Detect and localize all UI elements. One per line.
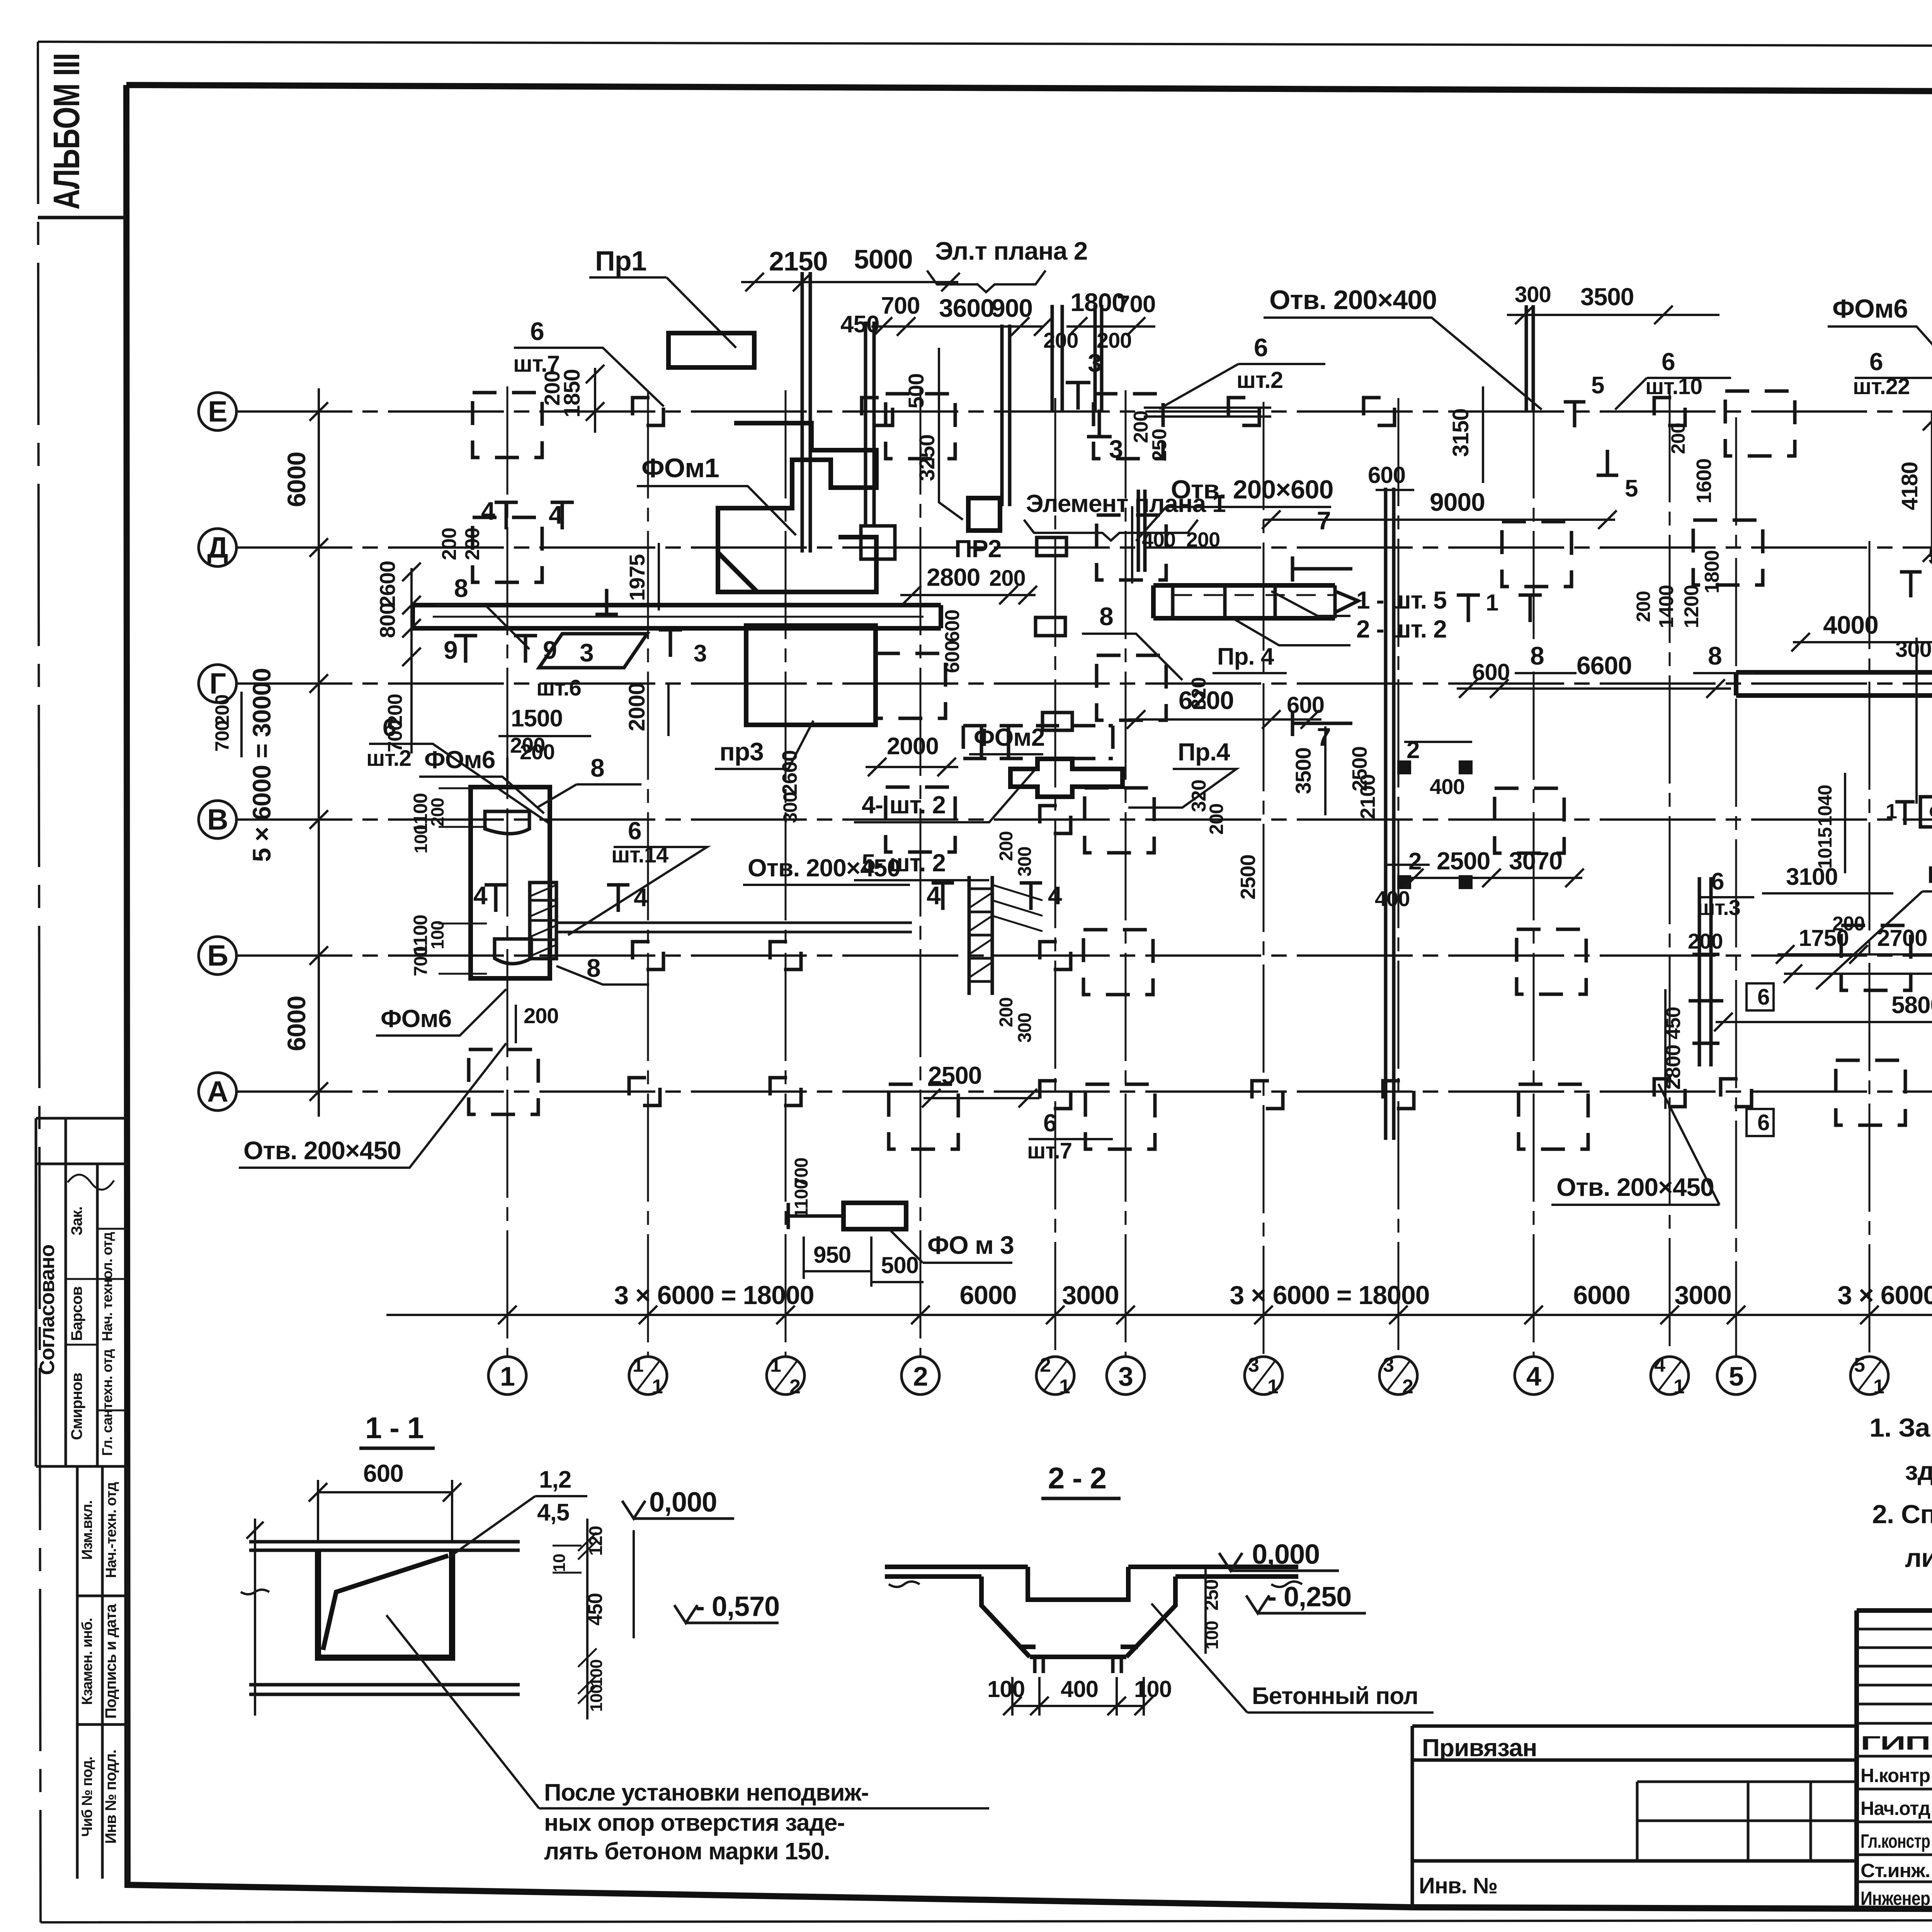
- svg-text:Зак.: Зак.: [68, 1207, 85, 1235]
- svg-text:1040: 1040: [1814, 785, 1836, 826]
- svg-text:лять бетоном марки 150.: лять бетоном марки 150.: [544, 1838, 830, 1865]
- svg-text:Нач. технол. отд: Нач. технол. отд: [99, 1232, 115, 1341]
- svg-text:ФОм6: ФОм6: [424, 746, 495, 774]
- svg-text:200: 200: [461, 528, 484, 560]
- svg-text:листе КЖС - 15: листе КЖС - 15: [1905, 1543, 1932, 1573]
- svg-text:6000: 6000: [959, 1281, 1016, 1310]
- svg-text:Гл.констр: Гл.констр: [1861, 1830, 1930, 1852]
- 1975 vertical dim: [658, 543, 660, 611]
- footing square (4841,2828): [1836, 1060, 1905, 1125]
- svg-text:400: 400: [1142, 528, 1175, 551]
- svg-text:4: 4: [927, 881, 941, 910]
- svg-text:Барсов: Барсов: [68, 1286, 85, 1341]
- long channel bar left (Д-Г): [413, 605, 941, 628]
- svg-text:Бетонный пол: Бетонный пол: [1252, 1683, 1418, 1709]
- svg-text:6: 6: [1711, 868, 1724, 895]
- svg-text:1: 1: [633, 1354, 643, 1376]
- svg-text:3: 3: [694, 640, 706, 667]
- svg-text:3500: 3500: [1291, 748, 1315, 794]
- footing bracket (3280,2833): [1252, 1081, 1283, 1109]
- svg-text:А: А: [207, 1075, 228, 1108]
- footing bracket (3619,2833): [1383, 1081, 1414, 1109]
- footing square (2382,1103): [886, 394, 955, 459]
- svg-text:Изм.вкл.: Изм.вкл.: [79, 1500, 95, 1560]
- svg-text:8: 8: [454, 574, 468, 602]
- svg-text:Нач.отд: Нач.отд: [1861, 1798, 1930, 1819]
- footing bracket (3569,1065): [1364, 398, 1395, 425]
- svg-text:В: В: [207, 803, 228, 836]
- column line 4/1: [1669, 394, 1671, 1355]
- svg-text:8: 8: [590, 753, 604, 782]
- axis line Д: [236, 546, 1932, 549]
- svg-text:1: 1: [1873, 1376, 1884, 1398]
- footing square (4855,2479): [1841, 925, 1911, 990]
- svg-text:1800: 1800: [1701, 550, 1723, 594]
- svg-text:200: 200: [427, 798, 447, 827]
- svg-text:3600: 3600: [939, 294, 994, 322]
- column line 2/1: [1054, 398, 1056, 1355]
- svg-text:400: 400: [1430, 774, 1464, 799]
- svg-text:600: 600: [1368, 462, 1405, 488]
- svg-text:здания станции.: здания станции.: [1905, 1456, 1932, 1486]
- svg-text:1015: 1015: [1814, 827, 1836, 869]
- footing square (2357,1775): [876, 653, 946, 718]
- svg-text:300: 300: [779, 792, 801, 823]
- svg-text:320: 320: [1188, 677, 1210, 710]
- footing bracket (4321,2828): [1654, 1079, 1685, 1107]
- footing bracket (2731,2833): [1040, 1081, 1071, 1109]
- svg-text:200: 200: [1667, 423, 1689, 454]
- svg-text:ФОм4: ФОм4: [1929, 799, 1932, 825]
- footing square (2897,2123): [1085, 788, 1154, 853]
- svg-text:2: 2: [789, 1376, 800, 1398]
- svg-text:5: 5: [1625, 475, 1638, 502]
- vertical dim 1850: [594, 368, 596, 433]
- svg-text:7: 7: [1317, 723, 1331, 751]
- footing square (2928,1417): [1097, 515, 1166, 580]
- footing square (2899,2890): [1085, 1084, 1155, 1149]
- svg-text:6000: 6000: [1573, 1281, 1630, 1310]
- svg-text:Отв. 200×450: Отв. 200×450: [1556, 1173, 1714, 1201]
- svg-text:Подпись и дата: Подпись и дата: [102, 1604, 119, 1719]
- vertical element near col 5 (Б): [1699, 877, 1711, 1066]
- svg-text:4: 4: [481, 497, 495, 525]
- svg-text:200: 200: [1688, 929, 1723, 953]
- svg-text:1 - шт. 5: 1 - шт. 5: [1356, 586, 1447, 614]
- svg-text:Пр1: Пр1: [595, 246, 646, 277]
- элт2 tall vertical channels: [802, 272, 810, 553]
- svg-text:Б: Б: [207, 939, 228, 972]
- svg-text:шт.10: шт.10: [1645, 374, 1702, 399]
- svg-text:1200: 1200: [1680, 585, 1703, 628]
- section 2-2 drawing: [885, 1567, 1028, 1577]
- svg-text:6: 6: [628, 817, 641, 845]
- svg-text:700: 700: [881, 293, 920, 319]
- svg-text:ГИП: ГИП: [1861, 1732, 1930, 1754]
- svg-text:3 × 6000 = 18000: 3 × 6000 = 18000: [1837, 1281, 1932, 1310]
- svg-text:200: 200: [989, 566, 1026, 591]
- svg-text:3000: 3000: [1674, 1281, 1731, 1310]
- svg-text:3 × 6000 = 18000: 3 × 6000 = 18000: [614, 1281, 814, 1310]
- footing bracket (3219,1065): [1228, 398, 1259, 425]
- axis line А: [236, 1090, 1932, 1093]
- svg-text:200: 200: [1832, 913, 1865, 935]
- svg-text:200: 200: [510, 733, 545, 757]
- svg-text:3: 3: [580, 638, 594, 667]
- svg-text:Инженер: Инженер: [1861, 1888, 1930, 1909]
- footing square (4015,2489): [1517, 929, 1586, 994]
- col ~2530 vertical element (В-Б): [969, 876, 992, 995]
- svg-text:600: 600: [1287, 692, 1324, 718]
- svg-text:8: 8: [1530, 641, 1544, 670]
- footing square (2390,2890): [889, 1084, 958, 1149]
- footing bracket (2033,2825): [770, 1078, 801, 1105]
- svg-text:6: 6: [530, 317, 544, 345]
- svg-text:600: 600: [941, 641, 964, 673]
- svg-text:2000: 2000: [887, 733, 939, 760]
- svg-text:ПР2: ПР2: [954, 535, 1001, 563]
- svg-text:3500: 3500: [1580, 283, 1634, 311]
- svg-text:Смирнов: Смирнов: [68, 1373, 85, 1440]
- svg-text:700: 700: [1117, 291, 1155, 318]
- svg-text:6: 6: [1043, 1109, 1057, 1137]
- axis bubble Д: [199, 529, 236, 566]
- svg-text:1: 1: [1673, 1376, 1684, 1398]
- svg-text:700: 700: [211, 721, 233, 752]
- footing square (3977,1434): [1502, 522, 1571, 587]
- T3 below: [595, 589, 618, 614]
- svg-text:5: 5: [1591, 372, 1604, 399]
- svg-text:3: 3: [1383, 1354, 1394, 1376]
- svg-text:2: 2: [913, 1361, 928, 1391]
- svg-text:4- шт. 2: 4- шт. 2: [862, 791, 946, 819]
- column line 3/1: [1263, 402, 1265, 1355]
- footing square (2382,2121): [886, 787, 955, 852]
- svg-text:8: 8: [1099, 602, 1113, 631]
- svg-text:Инв. №: Инв. №: [1419, 1873, 1497, 1898]
- svg-text:шт.7: шт.7: [1027, 1138, 1072, 1163]
- svg-text:Нач.-техн. отд: Нач.-техн. отд: [103, 1482, 119, 1578]
- svg-text:4: 4: [634, 883, 648, 912]
- left vertical dimension chain: [318, 388, 320, 1117]
- svg-text:2600: 2600: [778, 750, 801, 795]
- svg-text:3: 3: [1118, 1361, 1133, 1391]
- extra verticals элт1: [1131, 506, 1133, 583]
- svg-text:300: 300: [1895, 637, 1932, 662]
- svg-text:450: 450: [584, 1593, 607, 1626]
- svg-text:6: 6: [1869, 348, 1883, 376]
- footing square (4020,2890): [1519, 1084, 1588, 1149]
- svg-text:1 - 1: 1 - 1: [365, 1411, 423, 1445]
- axis bubble А: [199, 1073, 236, 1111]
- svg-text:2: 2: [1402, 1376, 1413, 1398]
- column line 1/2: [785, 390, 787, 1355]
- svg-text:Отв. 200×450: Отв. 200×450: [748, 854, 900, 882]
- svg-text:4: 4: [1048, 881, 1062, 910]
- svg-text:2: 2: [1040, 1354, 1051, 1376]
- svg-text:1. За отметку 0,000 принята о: 1. За отметку 0,000 принята отметка чист…: [1869, 1413, 1932, 1442]
- svg-text:900: 900: [991, 294, 1032, 322]
- column line 1: [507, 386, 509, 1355]
- left margin approval stamp table: [36, 1118, 128, 1466]
- svg-text:1975: 1975: [625, 554, 649, 601]
- svg-text:Пр.4: Пр.4: [1178, 738, 1230, 766]
- svg-text:шт.14: шт.14: [611, 842, 668, 867]
- footing bracket (2731,2473): [1040, 942, 1071, 969]
- footing bracket (4321,1065): [1654, 398, 1685, 425]
- svg-text:6: 6: [383, 714, 396, 742]
- svg-text:200: 200: [438, 528, 461, 560]
- svg-text:4: 4: [1654, 1354, 1665, 1376]
- svg-text:1400: 1400: [1655, 585, 1678, 628]
- svg-text:4: 4: [1526, 1361, 1541, 1391]
- svg-text:600: 600: [1472, 659, 1510, 685]
- svg-text:1: 1: [1267, 1376, 1278, 1398]
- svg-text:800: 800: [375, 603, 400, 638]
- svg-text:0,000: 0,000: [649, 1487, 717, 1518]
- svg-text:5: 5: [1854, 1354, 1865, 1376]
- column line 5: [1735, 417, 1737, 1355]
- svg-text:3 × 6000 = 18000: 3 × 6000 = 18000: [1230, 1281, 1429, 1310]
- svg-text:2500: 2500: [928, 1061, 981, 1089]
- svg-text:2000: 2000: [624, 683, 650, 731]
- title block left extension rows: [1412, 1726, 1857, 1909]
- footing square (2928,1780): [1097, 655, 1166, 720]
- svg-text:Е: Е: [208, 395, 227, 428]
- svg-text:3250: 3250: [915, 435, 939, 481]
- svg-text:шт.3: шт.3: [1697, 895, 1740, 920]
- footing square (4555,1096): [1725, 391, 1795, 456]
- footing square (2894,2490): [1083, 930, 1153, 995]
- svg-text:2. Спецификация к схеме рас: 2. Спецификация к схеме расположения дан…: [1872, 1500, 1932, 1529]
- svg-text:3: 3: [1109, 435, 1123, 463]
- footing bracket (4493,2828): [1721, 1079, 1752, 1107]
- svg-text:300: 300: [1515, 282, 1551, 307]
- svg-text:6: 6: [1254, 333, 1268, 362]
- svg-text:ФОм6: ФОм6: [1832, 294, 1908, 323]
- axis bubble В: [199, 801, 236, 838]
- svg-text:Кзамен. инб.: Кзамен. инб.: [79, 1618, 95, 1705]
- bottom dimension chain: [386, 1314, 1932, 1316]
- svg-text:100: 100: [427, 921, 447, 949]
- svg-text:1: 1: [770, 1354, 781, 1376]
- svg-text:5: 5: [1928, 543, 1932, 570]
- svg-text:1: 1: [1886, 800, 1897, 823]
- svg-text:1850: 1850: [560, 369, 585, 417]
- title block table: [1857, 1611, 1932, 1909]
- svg-text:- 0,250: - 0,250: [1267, 1582, 1351, 1612]
- svg-text:ФОм6: ФОм6: [381, 1005, 451, 1032]
- svg-text:100: 100: [587, 1660, 606, 1687]
- svg-text:пр3: пр3: [719, 737, 764, 766]
- svg-text:3100: 3100: [1786, 864, 1838, 890]
- svg-text:200: 200: [1186, 528, 1220, 551]
- svg-text:2500: 2500: [1437, 847, 1490, 875]
- dim chain 700 3600 900: [871, 325, 1155, 328]
- svg-text:500: 500: [881, 1252, 918, 1278]
- top dimension 2150 / 5000: [741, 281, 958, 283]
- svg-text:8: 8: [1708, 641, 1722, 670]
- svg-text:700: 700: [411, 946, 431, 976]
- svg-text:7: 7: [1317, 506, 1331, 535]
- column line 1/1: [647, 390, 649, 1355]
- 1-1 dims: [318, 1480, 452, 1542]
- T1 marks right of band: [1457, 595, 1480, 622]
- svg-text:500: 500: [904, 374, 928, 408]
- svg-text:Гл. сантехн. отд: Гл. сантехн. отд: [99, 1349, 115, 1456]
- svg-text:6000: 6000: [282, 996, 311, 1051]
- col3 duct verticals: [1138, 490, 1145, 572]
- svg-text:Привязан: Привязан: [1422, 1734, 1537, 1762]
- svg-text:4,5: 4,5: [537, 1499, 569, 1526]
- svg-text:2700: 2700: [1877, 925, 1927, 951]
- svg-text:- 0,570: - 0,570: [696, 1591, 779, 1622]
- svg-text:1600: 1600: [1692, 459, 1716, 503]
- 2 mark lower + small squares (row между В): [1397, 875, 1411, 889]
- column line 3: [1125, 390, 1127, 1355]
- ФОм3 detail below А col 1/2: [844, 1203, 906, 1229]
- svg-text:Отв. 200×600: Отв. 200×600: [1171, 475, 1333, 504]
- footing bracket (1677,1065): [633, 398, 663, 425]
- column line 4: [1533, 390, 1535, 1355]
- svg-text:Пр. 4: Пр. 4: [1217, 643, 1274, 670]
- double rail В-Б left (Отв 200х450 channel): [556, 923, 912, 932]
- svg-text:6: 6: [1757, 1110, 1769, 1135]
- footing square (2920,1103): [1094, 394, 1163, 459]
- album label box: [38, 216, 126, 219]
- svg-text:200: 200: [996, 997, 1017, 1027]
- left margin lower strip (подпись и дата / инв): [77, 1466, 128, 1881]
- svg-text:250: 250: [1201, 1580, 1222, 1611]
- column line 2: [920, 386, 922, 1355]
- footing square (4472,1430): [1693, 520, 1763, 585]
- column line 5/1: [1869, 541, 1871, 1355]
- svg-text:400: 400: [1061, 1676, 1098, 1702]
- svg-text:1100: 1100: [791, 1179, 812, 1218]
- footing square (3958,2124): [1495, 788, 1564, 853]
- svg-text:200: 200: [1206, 804, 1227, 835]
- svg-text:1: 1: [652, 1376, 663, 1398]
- элт2 vertical channel pair right: [1052, 305, 1062, 410]
- section 1-1 drawing: [249, 1542, 520, 1550]
- svg-text:Инв № подл.: Инв № подл.: [102, 1750, 119, 1844]
- svg-text:шт.22: шт.22: [1853, 374, 1910, 399]
- svg-text:2 - 2: 2 - 2: [1048, 1461, 1106, 1495]
- svg-text:100: 100: [587, 1685, 606, 1712]
- svg-text:2800: 2800: [927, 563, 980, 591]
- svg-text:ФОм1: ФОм1: [641, 453, 719, 483]
- svg-text:Д: Д: [207, 531, 228, 564]
- footing square (1303,2800): [469, 1049, 538, 1114]
- svg-text:3150: 3150: [1448, 408, 1473, 457]
- svg-text:3000: 3000: [1062, 1281, 1119, 1310]
- svg-text:950: 950: [813, 1242, 851, 1268]
- bottom column bubbles: [488, 1357, 526, 1395]
- svg-text:шт.6: шт.6: [536, 675, 581, 701]
- svg-text:2: 2: [1408, 848, 1421, 875]
- svg-text:ных опор отверстия заде-: ных опор отверстия заде-: [544, 1810, 845, 1836]
- svg-text:Эл.т плана 2: Эл.т плана 2: [935, 236, 1087, 265]
- svg-text:5 × 6000 = 30000: 5 × 6000 = 30000: [247, 668, 276, 862]
- svg-text:200: 200: [1633, 591, 1654, 622]
- ФОм4 boxed label: [1920, 797, 1932, 827]
- svg-text:200: 200: [524, 1003, 558, 1028]
- svg-text:5000: 5000: [854, 244, 913, 274]
- svg-text:6600: 6600: [1577, 651, 1632, 680]
- svg-text:Согласовано: Согласовано: [36, 1245, 59, 1375]
- svg-text:300: 300: [1015, 847, 1035, 876]
- svg-text:Отв. 200×450: Отв. 200×450: [243, 1136, 401, 1165]
- svg-text:5800: 5800: [1891, 992, 1932, 1019]
- long foundation band on Г (right half): [1736, 672, 1932, 696]
- svg-text:ФОм2: ФОм2: [974, 723, 1044, 751]
- svg-text:Ст.инж.: Ст.инж.: [1861, 1860, 1930, 1881]
- svg-text:ФО м 3: ФО м 3: [927, 1231, 1014, 1259]
- footing bracket (2270,1065): [862, 398, 893, 425]
- axis bubble Е: [199, 393, 236, 430]
- svg-text:2 - шт. 2: 2 - шт. 2: [1356, 615, 1447, 643]
- svg-text:6000: 6000: [282, 452, 311, 507]
- svg-text:1500: 1500: [511, 705, 563, 732]
- svg-text:600: 600: [941, 610, 964, 642]
- svg-text:АЛЬБОМ III: АЛЬБОМ III: [46, 53, 87, 210]
- axis bubble Б: [199, 937, 236, 975]
- svg-text:1,2: 1,2: [539, 1466, 571, 1493]
- footing bracket (1668,2825): [629, 1078, 660, 1105]
- svg-text:4000: 4000: [1823, 611, 1878, 639]
- ФОм6 vertical element at col1 (В-Б): [471, 787, 550, 978]
- svg-text:600: 600: [363, 1459, 403, 1487]
- svg-text:Пр4: Пр4: [1927, 862, 1932, 888]
- footing bracket (2033,2473): [770, 942, 801, 969]
- svg-text:9000: 9000: [1430, 488, 1485, 516]
- svg-text:2150: 2150: [769, 246, 828, 276]
- footing square (1313,1423): [473, 517, 542, 582]
- svg-text:10: 10: [550, 1554, 569, 1572]
- svg-text:6: 6: [1662, 348, 1675, 376]
- svg-text:9: 9: [444, 636, 457, 664]
- axis line Г: [236, 682, 1932, 685]
- svg-text:2100: 2100: [1356, 774, 1379, 819]
- axis line Е: [236, 410, 1932, 413]
- svg-text:1: 1: [500, 1361, 515, 1391]
- svg-text:1: 1: [1486, 590, 1498, 616]
- svg-text:После установки неподвиж-: После установки неподвиж-: [544, 1779, 869, 1806]
- vertical duct col 3/2 long: [1386, 488, 1394, 1140]
- T3 mark mid: [659, 630, 682, 657]
- footing bracket (2731,2121): [1040, 806, 1071, 833]
- svg-text:3: 3: [1248, 1354, 1259, 1376]
- band below В left (4-шт.2 / 5-шт.2 element): [963, 726, 1113, 759]
- svg-text:2500: 2500: [1236, 855, 1260, 900]
- svg-text:300: 300: [1015, 1013, 1035, 1043]
- svg-text:4180: 4180: [1897, 462, 1922, 510]
- svg-text:0,000: 0,000: [1252, 1539, 1320, 1570]
- svg-text:Н.контр: Н.контр: [1861, 1765, 1930, 1786]
- svg-text:Чиб № под.: Чиб № под.: [79, 1757, 95, 1837]
- axis line Б: [236, 954, 1932, 957]
- column line 3/2: [1398, 398, 1400, 1355]
- footing bracket (1677,2473): [633, 942, 663, 969]
- thin rails through E col3: [1144, 408, 1271, 417]
- svg-text:Отв. 200×400: Отв. 200×400: [1269, 285, 1437, 315]
- svg-text:200: 200: [996, 831, 1017, 861]
- svg-text:6: 6: [1757, 985, 1769, 1010]
- svg-text:2600: 2600: [375, 561, 400, 608]
- svg-text:шт.2: шт.2: [366, 746, 411, 771]
- svg-text:3070: 3070: [1509, 847, 1562, 875]
- channel band cols3-4 (1-шт.5): [1153, 585, 1335, 618]
